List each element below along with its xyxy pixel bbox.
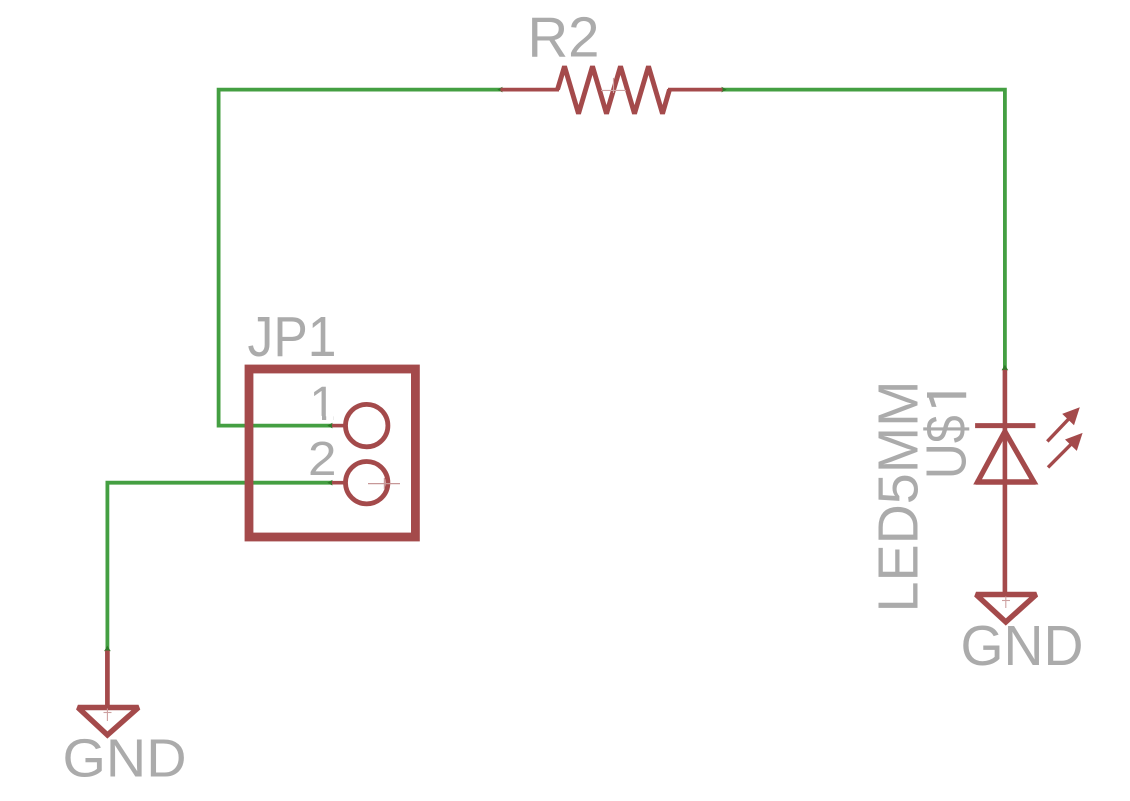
GND left origin tick (faint) — [104, 709, 112, 722]
connector JP1 pin 2 stub — [332, 481, 347, 485]
label U$1 digit 1 stem (rotated) — [927, 392, 966, 397]
GND right origin tick (faint) — [1002, 597, 1010, 609]
svg-text:LED5MM: LED5MM — [867, 381, 931, 613]
LED U$1 triangle base bar — [976, 480, 1036, 485]
connector JP1 pin 1 circle — [346, 404, 388, 446]
junction wedge at LED anode — [1002, 365, 1009, 371]
svg-text:GND: GND — [63, 729, 187, 789]
junction wedge at left GND — [104, 646, 111, 652]
LED U$1 light arrow 2 head — [1065, 433, 1083, 451]
GND symbol left triangle — [78, 708, 139, 736]
connector JP1 box — [249, 369, 415, 537]
LED U$1 triangle — [978, 432, 1034, 482]
LED U$1 cathode bar — [975, 423, 1035, 428]
junction wedge at R2 pin 2 (right) — [722, 87, 727, 93]
GND symbol left pin — [105, 651, 110, 708]
resistor R2 origin cross (faint) — [601, 78, 626, 93]
connector JP1 pin 2 circle — [346, 462, 388, 504]
label U$1 digit 1 flag (rotated) — [927, 393, 937, 407]
LED U$1 anode pin (top vertical) — [1003, 370, 1008, 426]
LED U$1 cathode pin (bottom vertical) — [1003, 426, 1008, 595]
svg-text:GND: GND — [961, 614, 1084, 678]
GND symbol right triangle — [976, 595, 1036, 623]
resistor R2 zigzag body — [558, 66, 670, 113]
LED U$1 light arrow 2 shaft — [1048, 443, 1072, 467]
LED U$1 light arrow 1 shaft — [1047, 418, 1070, 442]
svg-text:JP1: JP1 — [248, 305, 337, 369]
svg-text:R2: R2 — [528, 6, 600, 70]
junction wedge at R2 pin 1 (left) — [497, 87, 502, 93]
wire net N$1: JP1 pin1 up and across to R2 left — [219, 90, 501, 426]
svg-text:U$: U$ — [915, 415, 979, 479]
junction wedge at JP1 pin 1 — [327, 423, 332, 429]
junction wedge at JP1 pin 2 — [327, 480, 332, 486]
resistor R2 right pin — [668, 88, 723, 92]
LED U$1 light arrow 1 head — [1062, 407, 1080, 425]
svg-text:2: 2 — [308, 433, 337, 486]
connector JP1 origin cross (faint) — [368, 478, 400, 489]
svg-text:1: 1 — [310, 378, 337, 431]
resistor R2 left pin — [501, 88, 560, 92]
connector JP1 pin 1 stub — [332, 424, 347, 428]
wire net N$2: R2 right across and down to LED anode — [723, 90, 1005, 370]
wire net GND: JP1 pin2 left and down to GND symbol — [107, 483, 332, 651]
